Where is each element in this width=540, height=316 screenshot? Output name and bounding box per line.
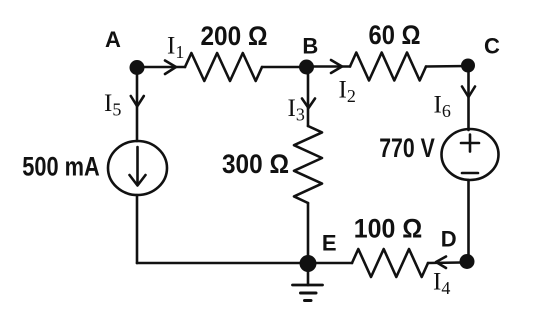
resistor R3 300 ohm zigzag xyxy=(294,126,322,203)
svg-text:770 V: 770 V xyxy=(379,133,435,163)
current arrow I2 xyxy=(331,60,342,73)
wire R4 to D xyxy=(428,261,461,264)
voltage source V1 circle xyxy=(442,129,499,180)
node D junction dot xyxy=(460,254,475,269)
svg-text:200 Ω: 200 Ω xyxy=(201,21,268,51)
wire R3 to E xyxy=(307,203,310,263)
node C junction dot xyxy=(461,59,475,73)
wire C down to voltage source xyxy=(467,66,470,130)
wire R2 to C xyxy=(426,65,468,68)
svg-text:300 Ω: 300 Ω xyxy=(222,149,289,179)
wire current source to bottom corner xyxy=(136,195,139,263)
wire voltage source to D xyxy=(467,180,470,262)
node B junction dot xyxy=(299,60,314,75)
svg-text:A: A xyxy=(105,27,121,52)
svg-text:100 Ω: 100 Ω xyxy=(354,214,423,244)
current source CS1 internal arrow xyxy=(136,147,139,184)
voltage source minus sign xyxy=(462,172,478,175)
current arrow I1 xyxy=(165,61,176,75)
wire B to R2 xyxy=(306,65,350,68)
resistor R1 200 ohm zigzag xyxy=(185,53,262,81)
svg-text:D: D xyxy=(441,227,457,252)
current arrow I3 xyxy=(302,99,315,109)
node A junction dot xyxy=(130,60,145,75)
resistor R2 60 ohm zigzag xyxy=(350,53,426,81)
wire A down to current source xyxy=(136,67,139,141)
wire E to R4 xyxy=(308,262,352,265)
svg-text:60 Ω: 60 Ω xyxy=(369,20,421,50)
voltage source plus sign xyxy=(461,142,479,145)
node E junction dot xyxy=(300,255,317,272)
wire bottom corner to E xyxy=(137,262,308,265)
resistor R4 100 ohm zigzag xyxy=(352,249,428,277)
ground symbol bars xyxy=(293,284,323,287)
svg-text:B: B xyxy=(302,34,318,59)
wire R1 to B xyxy=(262,66,306,69)
svg-text:C: C xyxy=(484,34,500,59)
wire B down to R3 xyxy=(307,67,310,126)
svg-text:E: E xyxy=(322,231,337,256)
wire A to R1 xyxy=(137,66,185,69)
svg-text:500 mA: 500 mA xyxy=(22,152,100,182)
current source CS1 circle xyxy=(108,141,167,195)
current arrow I5 xyxy=(131,96,144,106)
ground symbol stem xyxy=(307,270,310,285)
current arrow I6 xyxy=(462,87,475,98)
current arrow I4 xyxy=(436,257,446,269)
